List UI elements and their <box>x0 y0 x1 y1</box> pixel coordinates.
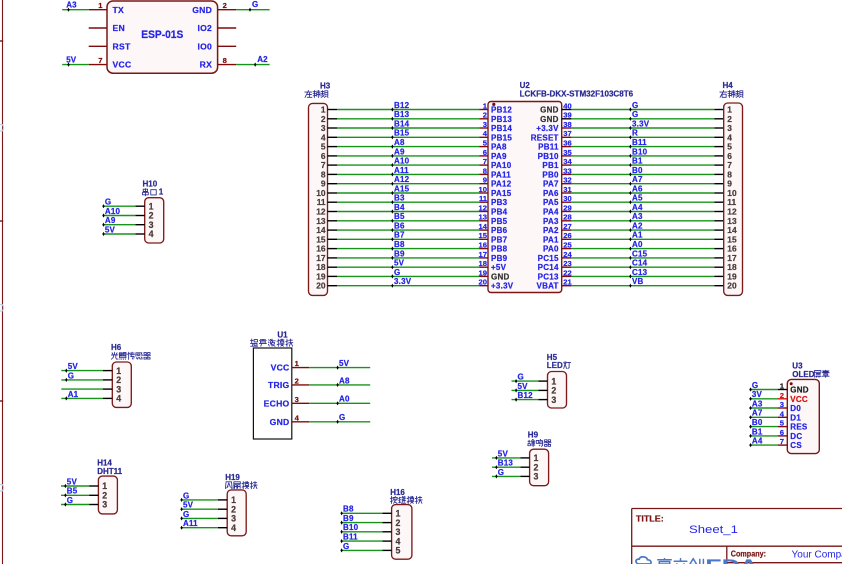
svg-text:GND: GND <box>540 115 559 124</box>
svg-text:B1: B1 <box>632 157 643 166</box>
svg-text:PA5: PA5 <box>543 198 559 207</box>
svg-text:PC13: PC13 <box>538 272 559 281</box>
svg-text:VBAT: VBAT <box>537 282 559 291</box>
svg-text:2: 2 <box>223 1 227 10</box>
svg-text:H6: H6 <box>111 343 122 352</box>
svg-text:G: G <box>339 413 345 422</box>
svg-text:14: 14 <box>479 222 488 231</box>
svg-text:C14: C14 <box>632 259 648 268</box>
svg-text:H4: H4 <box>723 81 734 90</box>
svg-text:A7: A7 <box>632 175 643 184</box>
svg-text:DC: DC <box>790 432 802 441</box>
svg-text:H16: H16 <box>390 488 405 497</box>
svg-text:PA12: PA12 <box>491 180 512 189</box>
svg-text:5V: 5V <box>183 501 194 510</box>
svg-text:B4: B4 <box>394 203 405 212</box>
svg-text:5V: 5V <box>498 449 509 458</box>
svg-text:PB10: PB10 <box>538 152 559 161</box>
svg-text:D0: D0 <box>790 404 801 413</box>
svg-text:PB13: PB13 <box>491 115 512 124</box>
svg-text:G: G <box>183 491 189 500</box>
svg-text:PB0: PB0 <box>542 170 559 179</box>
svg-text:A8: A8 <box>394 138 405 147</box>
svg-text:7: 7 <box>780 437 784 446</box>
svg-text:H10: H10 <box>143 180 158 189</box>
svg-text:PB15: PB15 <box>491 133 512 142</box>
svg-text:+5V: +5V <box>491 263 507 272</box>
svg-text:5V: 5V <box>394 259 405 268</box>
svg-text:OLED: OLED <box>792 370 814 379</box>
svg-text:4: 4 <box>231 523 236 533</box>
svg-text:5V: 5V <box>339 359 350 368</box>
svg-text:B12: B12 <box>394 101 410 110</box>
svg-text:G: G <box>105 198 111 207</box>
svg-text:G: G <box>498 468 504 477</box>
svg-text:H9: H9 <box>528 430 539 439</box>
svg-text:A0: A0 <box>632 240 643 249</box>
svg-text:4: 4 <box>149 229 154 239</box>
svg-text:A4: A4 <box>752 437 763 446</box>
svg-text:35: 35 <box>563 148 572 157</box>
svg-text:4: 4 <box>116 394 121 404</box>
svg-text:PA3: PA3 <box>543 217 559 226</box>
svg-text:A4: A4 <box>632 203 643 212</box>
svg-text:PA9: PA9 <box>491 152 507 161</box>
svg-text:5V: 5V <box>66 56 76 65</box>
svg-text:+3.3V: +3.3V <box>536 124 559 133</box>
svg-text:A3: A3 <box>752 399 763 408</box>
svg-text:CS: CS <box>790 441 802 450</box>
svg-text:A2: A2 <box>257 55 268 64</box>
svg-text:A7: A7 <box>752 409 763 418</box>
svg-text:A15: A15 <box>394 184 410 193</box>
svg-text:G: G <box>752 381 758 390</box>
svg-text:PA6: PA6 <box>543 189 559 198</box>
svg-text:B12: B12 <box>518 391 534 400</box>
svg-text:B10: B10 <box>632 147 648 156</box>
svg-text:34: 34 <box>563 157 572 166</box>
svg-text:PA1: PA1 <box>543 235 559 244</box>
svg-text:A3: A3 <box>632 212 643 221</box>
svg-text:IO2: IO2 <box>197 23 212 33</box>
svg-text:3.3V: 3.3V <box>632 119 650 128</box>
svg-text:ECHO: ECHO <box>264 398 290 408</box>
svg-text:8: 8 <box>223 56 227 65</box>
svg-text:ESP-01S: ESP-01S <box>141 29 183 41</box>
svg-text:A5: A5 <box>632 194 643 203</box>
svg-text:B9: B9 <box>343 514 354 523</box>
svg-text:B6: B6 <box>394 222 405 231</box>
svg-text:G: G <box>68 371 74 380</box>
svg-text:22: 22 <box>563 268 571 277</box>
svg-text:PA11: PA11 <box>491 170 511 179</box>
svg-text:LCKFB-DKX-STM32F103C8T6: LCKFB-DKX-STM32F103C8T6 <box>520 89 634 98</box>
svg-text:TRIG: TRIG <box>268 380 290 390</box>
svg-text:PB4: PB4 <box>491 208 508 217</box>
svg-text:3: 3 <box>483 120 487 129</box>
svg-text:EN: EN <box>113 23 125 33</box>
svg-text:PB14: PB14 <box>491 124 512 133</box>
svg-text:10: 10 <box>479 185 487 194</box>
svg-text:IO0: IO0 <box>197 41 212 51</box>
svg-text:A12: A12 <box>394 175 410 184</box>
svg-text:A10: A10 <box>105 207 121 216</box>
svg-text:B5: B5 <box>67 487 78 496</box>
svg-text:A6: A6 <box>632 184 643 193</box>
svg-text:G: G <box>343 542 349 551</box>
svg-text:5V: 5V <box>105 225 116 234</box>
svg-text:VB: VB <box>632 277 644 286</box>
svg-text:PA8: PA8 <box>491 143 507 152</box>
svg-text:PB5: PB5 <box>491 217 508 226</box>
svg-text:A8: A8 <box>339 376 350 385</box>
svg-text:40: 40 <box>563 101 571 110</box>
svg-text:3: 3 <box>534 472 539 482</box>
svg-text:D1: D1 <box>790 413 801 422</box>
svg-text:9: 9 <box>483 176 487 185</box>
svg-text:Your Compa: Your Compa <box>792 549 842 560</box>
svg-text:G: G <box>183 510 189 519</box>
svg-text:H3: H3 <box>320 82 331 91</box>
svg-text:20: 20 <box>479 278 487 287</box>
svg-text:B1: B1 <box>752 427 763 436</box>
svg-text:18: 18 <box>479 259 487 268</box>
svg-text:3: 3 <box>102 500 107 510</box>
svg-text:5V: 5V <box>518 382 529 391</box>
svg-text:B10: B10 <box>343 523 359 532</box>
svg-text:G: G <box>252 0 258 9</box>
svg-text:RES: RES <box>790 423 808 432</box>
svg-text:8: 8 <box>483 166 487 175</box>
svg-text:12: 12 <box>479 203 487 212</box>
svg-text:5V: 5V <box>67 477 78 486</box>
svg-text:19: 19 <box>479 268 487 277</box>
svg-text:B13: B13 <box>394 110 410 119</box>
svg-text:Sheet_1: Sheet_1 <box>689 524 738 536</box>
svg-text:A9: A9 <box>394 147 405 156</box>
svg-text:+3.3V: +3.3V <box>491 282 514 291</box>
svg-text:7: 7 <box>98 56 102 65</box>
svg-text:38: 38 <box>563 120 571 129</box>
svg-text:B0: B0 <box>752 418 763 427</box>
svg-text:GND: GND <box>192 5 212 15</box>
svg-text:G: G <box>632 110 638 119</box>
svg-text:PA10: PA10 <box>491 161 512 170</box>
svg-text:B13: B13 <box>498 459 514 468</box>
svg-text:24: 24 <box>563 250 572 259</box>
svg-text:6: 6 <box>483 148 487 157</box>
svg-text:39: 39 <box>563 111 571 120</box>
svg-text:PA4: PA4 <box>543 208 559 217</box>
svg-text:G: G <box>632 101 638 110</box>
svg-text:36: 36 <box>563 139 571 148</box>
svg-text:PB6: PB6 <box>491 226 508 235</box>
svg-text:A11: A11 <box>394 166 409 175</box>
svg-text:H19: H19 <box>225 473 240 482</box>
svg-text:RESET: RESET <box>531 133 559 142</box>
svg-text:PA15: PA15 <box>491 189 512 198</box>
svg-text:26: 26 <box>563 231 571 240</box>
svg-text:RST: RST <box>113 41 131 51</box>
svg-text:A11: A11 <box>183 519 198 528</box>
svg-text:PC14: PC14 <box>538 263 559 272</box>
svg-text:B7: B7 <box>394 231 405 240</box>
svg-text:A1: A1 <box>632 231 643 240</box>
svg-text:U1: U1 <box>277 331 288 340</box>
svg-text:23: 23 <box>563 259 571 268</box>
svg-text:28: 28 <box>563 213 571 222</box>
svg-text:GND: GND <box>491 272 510 281</box>
svg-text:5V: 5V <box>68 362 79 371</box>
svg-text:G: G <box>67 496 73 505</box>
svg-text:30: 30 <box>563 194 571 203</box>
svg-text:GND: GND <box>540 106 559 115</box>
svg-text:B3: B3 <box>394 194 405 203</box>
svg-text:2: 2 <box>295 376 299 385</box>
svg-text:27: 27 <box>563 222 571 231</box>
svg-text:LED: LED <box>547 361 563 370</box>
svg-text:25: 25 <box>563 241 572 250</box>
svg-text:A3: A3 <box>66 1 77 10</box>
svg-text:G: G <box>394 268 400 277</box>
svg-text:B11: B11 <box>343 533 358 542</box>
svg-text:VCC: VCC <box>271 363 290 373</box>
svg-text:3V: 3V <box>752 390 763 399</box>
svg-text:13: 13 <box>479 213 487 222</box>
svg-text:B8: B8 <box>394 240 405 249</box>
svg-text:5: 5 <box>396 546 401 556</box>
svg-text:PB11: PB11 <box>538 143 559 152</box>
svg-text:PA2: PA2 <box>543 226 559 235</box>
svg-text:7: 7 <box>483 157 487 166</box>
svg-text:37: 37 <box>563 129 571 138</box>
svg-text:3: 3 <box>551 395 556 405</box>
svg-text:PB9: PB9 <box>491 254 508 263</box>
svg-text:PB1: PB1 <box>542 161 559 170</box>
svg-text:PB7: PB7 <box>491 235 508 244</box>
svg-text:21: 21 <box>563 278 572 287</box>
svg-text:16: 16 <box>479 241 487 250</box>
svg-text:33: 33 <box>563 166 571 175</box>
svg-text:B5: B5 <box>394 212 405 221</box>
svg-text:GND: GND <box>270 417 290 427</box>
svg-text:3: 3 <box>295 395 299 404</box>
svg-text:17: 17 <box>479 250 487 259</box>
svg-text:B15: B15 <box>394 129 410 138</box>
svg-text:TITLE:: TITLE: <box>636 513 664 523</box>
svg-text:A2: A2 <box>632 222 643 231</box>
svg-text:PA7: PA7 <box>543 180 559 189</box>
svg-text:3: 3 <box>780 400 784 409</box>
svg-text:1: 1 <box>159 188 164 197</box>
svg-text:PB8: PB8 <box>491 245 508 254</box>
svg-text:C15: C15 <box>632 249 648 258</box>
svg-text:TX: TX <box>113 5 124 15</box>
svg-text:VCC: VCC <box>113 60 132 70</box>
svg-text:PC15: PC15 <box>538 254 559 263</box>
svg-text:R: R <box>632 129 638 138</box>
svg-text:A9: A9 <box>105 216 116 225</box>
svg-text:20: 20 <box>316 281 326 291</box>
svg-text:B8: B8 <box>343 505 354 514</box>
svg-text:32: 32 <box>563 176 571 185</box>
svg-text:6: 6 <box>780 428 784 437</box>
svg-text:A10: A10 <box>394 157 410 166</box>
svg-text:3.3V: 3.3V <box>394 277 412 286</box>
svg-text:VCC: VCC <box>790 395 808 404</box>
svg-text:11: 11 <box>479 194 488 203</box>
svg-text:A1: A1 <box>68 390 79 399</box>
svg-text:2: 2 <box>483 111 487 120</box>
svg-text:PB12: PB12 <box>491 106 512 115</box>
svg-text:C13: C13 <box>632 268 648 277</box>
svg-text:DHT11: DHT11 <box>97 467 122 476</box>
svg-text:PA0: PA0 <box>543 245 559 254</box>
svg-text:GND: GND <box>790 386 809 395</box>
svg-text:A0: A0 <box>339 395 350 404</box>
svg-text:B14: B14 <box>394 119 410 128</box>
svg-text:29: 29 <box>563 203 571 212</box>
svg-text:20: 20 <box>727 281 737 291</box>
svg-text:2: 2 <box>780 391 784 400</box>
svg-text:EDA: EDA <box>706 556 758 564</box>
svg-text:G: G <box>518 373 524 382</box>
svg-text:B9: B9 <box>394 249 405 258</box>
svg-text:15: 15 <box>479 231 488 240</box>
svg-text:B11: B11 <box>632 138 647 147</box>
svg-text:PB3: PB3 <box>491 198 508 207</box>
svg-text:RX: RX <box>200 60 212 70</box>
svg-text:B0: B0 <box>632 166 643 175</box>
svg-text:31: 31 <box>563 185 572 194</box>
